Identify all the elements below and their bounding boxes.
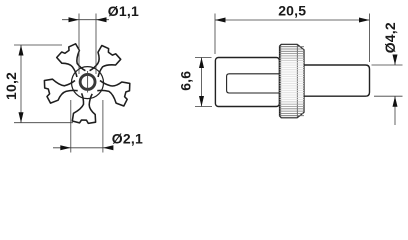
center ring (1.1 dia): [80, 74, 95, 89]
arrow right: [96, 17, 107, 22]
arrow right: [103, 145, 114, 150]
svg-text:Ø4,2: Ø4,2: [382, 22, 398, 53]
arrow down: [393, 55, 398, 66]
extension line right: [102, 100, 104, 153]
extension line bottom: [374, 95, 403, 97]
arrow down: [19, 112, 24, 123]
extension line bottom: [195, 106, 212, 108]
extension line right: [95, 14, 97, 75]
extension line left: [78, 14, 80, 75]
slot in head: [227, 74, 280, 93]
knurl chamfer line left: [280, 44, 282, 118]
extension line top: [195, 57, 212, 59]
svg-text:Ø2,1: Ø2,1: [112, 131, 143, 147]
star arm 5: [97, 81, 130, 107]
center line through hole: [87, 71, 89, 93]
hub circle (2.1 dia): [72, 67, 104, 99]
dimension leader below: [394, 96, 396, 125]
knurl ridges: [280, 46, 305, 48]
extension line top: [372, 64, 403, 66]
svg-text:20,5: 20,5: [278, 2, 306, 18]
svg-text:6,6: 6,6: [177, 71, 193, 91]
star arm 1: [72, 93, 95, 123]
pin head outline: [215, 58, 279, 107]
extension line right: [369, 14, 371, 63]
arrow up: [19, 45, 24, 56]
knurl chamfer line right: [296, 44, 298, 118]
dimension line: [215, 19, 370, 21]
arrow down: [199, 96, 204, 107]
arrow up: [199, 58, 204, 69]
svg-text:10,2: 10,2: [3, 72, 19, 100]
arrow left: [69, 17, 80, 22]
arrow right: [359, 18, 370, 23]
dimension line: [201, 58, 203, 107]
knurled collar outline: [280, 44, 305, 118]
star arm 3: [57, 44, 86, 77]
arrow left: [60, 145, 71, 150]
dimension leader above: [394, 56, 396, 65]
star arm 2: [44, 79, 77, 103]
arrow up: [393, 96, 398, 107]
dimension line: [53, 147, 111, 149]
extension line left: [214, 14, 216, 55]
dimension line: [20, 45, 22, 123]
extension line left: [70, 100, 72, 153]
svg-text:Ø1,1: Ø1,1: [108, 3, 139, 19]
arrow left: [215, 18, 226, 23]
extension line top: [14, 44, 62, 46]
dimension line: [62, 19, 109, 21]
shaft: [304, 65, 370, 96]
extension line bottom: [14, 122, 73, 124]
star arm 4: [90, 46, 121, 78]
